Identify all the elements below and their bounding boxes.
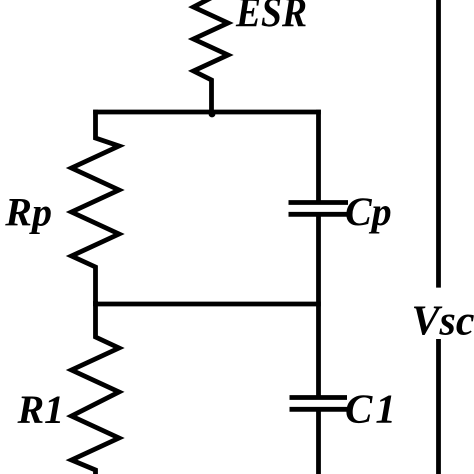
wire right branch middle	[316, 216, 321, 396]
wire Vsc upper lead	[436, 0, 441, 288]
wire bottom bus	[93, 302, 321, 307]
svg-text:ESR: ESR	[235, 0, 307, 37]
capacitor Cp	[289, 203, 349, 215]
svg-text:R1: R1	[17, 387, 65, 432]
capacitor C1	[290, 398, 348, 410]
svg-text:Rp: Rp	[4, 190, 52, 235]
svg-text:C1: C1	[345, 386, 399, 432]
wire Vsc lower lead	[436, 339, 441, 474]
wire top bus	[93, 110, 321, 115]
resistor R1	[72, 301, 120, 474]
wire right branch lower	[316, 411, 321, 474]
wire right branch upper	[316, 110, 321, 201]
svg-text:Cp: Cp	[345, 189, 392, 234]
svg-text:Vsc: Vsc	[412, 298, 474, 344]
node ESR-bus junction	[209, 111, 216, 118]
resistor ESR	[194, 0, 229, 114]
resistor Rp	[72, 110, 120, 306]
